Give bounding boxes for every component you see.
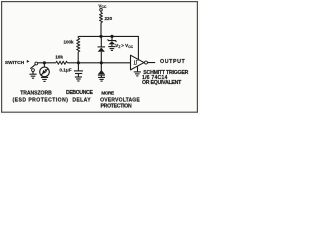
- ground (gate): [134, 72, 141, 76]
- svg-text:TRANSZORB: TRANSZORB: [20, 90, 52, 96]
- terminal VCC: [100, 9, 103, 12]
- wire bus corner down to gate VCC: [137, 36, 139, 59]
- wire VCC to R 220: [100, 11, 102, 13]
- ground (switch): [29, 74, 36, 78]
- ground (zener): [108, 47, 115, 51]
- svg-text:SWITCH: SWITCH: [5, 60, 25, 66]
- wire gate to ground: [137, 66, 139, 72]
- svg-text:>: >: [121, 43, 124, 48]
- wire signal to diode D2: [100, 63, 102, 71]
- svg-text:220: 220: [105, 16, 113, 21]
- wire switch to 10k: [38, 62, 56, 64]
- resistor 100k: [64, 36, 80, 52]
- wire dot to transzorb: [43, 63, 45, 67]
- ground (capacitor): [75, 77, 82, 81]
- svg-text:10k: 10k: [55, 55, 63, 60]
- wire D2 to ground: [100, 75, 102, 77]
- svg-text:CC: CC: [128, 45, 133, 49]
- ground (transzorb): [41, 77, 48, 81]
- wire bus to zener: [111, 36, 113, 40]
- node VCC label: [98, 3, 107, 9]
- op-amp U1 Schmitt trigger 74C14: [131, 55, 145, 70]
- transzorb (circle with diagonal zener): [40, 67, 50, 77]
- arrow to switch: [25, 60, 30, 63]
- inverter bubble: [145, 61, 148, 64]
- wire switch to ground: [32, 72, 34, 75]
- wire transzorb to ground: [44, 76, 46, 79]
- wire node to capacitor: [77, 63, 79, 71]
- svg-text:(ESD PROTECTION): (ESD PROTECTION): [13, 97, 69, 103]
- ground (D2): [98, 77, 105, 81]
- caption DEBOUNCE DELAY: [66, 90, 94, 103]
- diode D1 (clamp to rail): [98, 47, 106, 52]
- wire zener to ground: [111, 44, 113, 46]
- caption TRANSZORB (ESD PROTECTION): [13, 90, 69, 103]
- wire D1 to signal: [100, 52, 102, 63]
- svg-text:Z: Z: [118, 45, 120, 49]
- svg-text:DEBOUNCE: DEBOUNCE: [66, 90, 94, 96]
- zener diode VZ: [108, 39, 117, 44]
- svg-text:OR EQUIVALENT: OR EQUIVALENT: [142, 80, 182, 86]
- wire VCC bus: [78, 35, 139, 37]
- wire output: [148, 62, 155, 64]
- diode D2 (clamp to ground): [98, 70, 105, 75]
- svg-text:100k: 100k: [64, 39, 75, 44]
- wire R220 to bus: [100, 23, 102, 37]
- switch S1: [30, 62, 37, 71]
- junction dot clamp diodes: [100, 61, 103, 64]
- junction dot transzorb: [43, 61, 46, 64]
- wire capacitor to ground: [77, 74, 79, 77]
- junction dot bus/zener: [110, 35, 113, 38]
- svg-text:PROTECTION: PROTECTION: [101, 103, 132, 109]
- label VZ > VCC: [115, 43, 133, 49]
- svg-text:0.1μF: 0.1μF: [59, 68, 71, 73]
- junction dot cap/100k: [77, 61, 80, 64]
- resistor 10k: [55, 55, 67, 65]
- svg-text:MORE: MORE: [101, 91, 115, 97]
- capacitor 0.1uF: [59, 68, 83, 74]
- wire 100k to signal node: [77, 52, 79, 63]
- wire 10k to cap node: [67, 62, 101, 64]
- svg-text:OUTPUT: OUTPUT: [160, 59, 186, 65]
- svg-text:DELAY: DELAY: [72, 97, 91, 103]
- wire signal to gate input: [101, 62, 130, 64]
- wire bus to clamp diode D1: [100, 36, 102, 47]
- junction dot bus/R220: [99, 35, 102, 38]
- caption MORE OVERVOLTAGE PROTECTION: [100, 91, 140, 110]
- resistor 220: [100, 13, 113, 23]
